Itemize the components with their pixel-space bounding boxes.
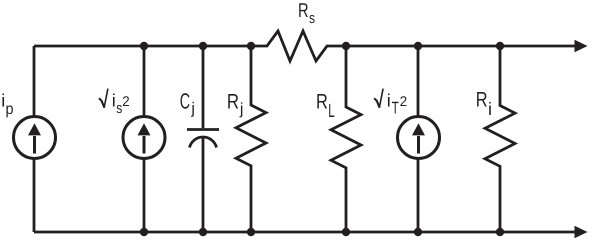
- svg-text:i: i: [488, 99, 492, 119]
- svg-text:s: s: [116, 100, 122, 117]
- svg-text:2: 2: [400, 93, 408, 109]
- svg-text:2: 2: [122, 93, 130, 109]
- svg-text:i: i: [112, 90, 116, 110]
- svg-text:R: R: [476, 89, 488, 112]
- svg-text:p: p: [6, 101, 14, 118]
- svg-text:R: R: [298, 0, 309, 22]
- svg-text:T: T: [392, 98, 399, 117]
- svg-text:R: R: [227, 91, 239, 114]
- svg-text:L: L: [328, 101, 334, 122]
- svg-text:j: j: [190, 101, 195, 118]
- svg-text:R: R: [316, 90, 328, 113]
- svg-text:C: C: [180, 89, 190, 114]
- svg-text:j: j: [239, 101, 244, 118]
- svg-text:i: i: [387, 90, 391, 110]
- svg-text:s: s: [309, 10, 315, 27]
